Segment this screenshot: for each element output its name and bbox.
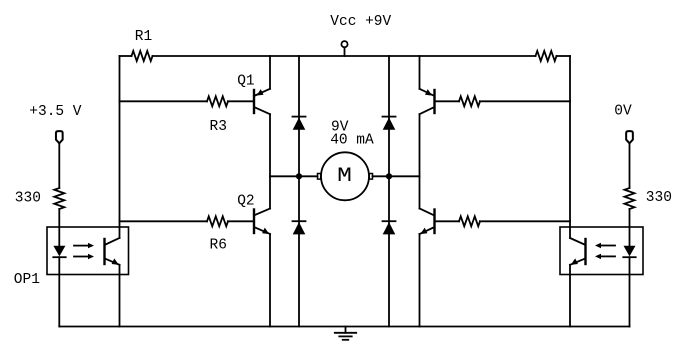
phototransistor OP1 xyxy=(105,238,120,265)
transistor right upper PNP xyxy=(420,89,435,114)
wire right NPN emitter to bottom rail xyxy=(419,234,421,327)
diode upper right xyxy=(383,117,396,130)
svg-text:330: 330 xyxy=(646,190,672,206)
wire right emitter to bottom rail xyxy=(569,265,571,327)
wire R6 row right xyxy=(228,220,253,222)
wire lower right diode column xyxy=(388,176,390,326)
wire LED OP1 cathode to bottom rail xyxy=(58,257,60,326)
svg-text:330: 330 xyxy=(15,191,41,207)
wire motor row left xyxy=(270,175,318,177)
wire upper right diode column xyxy=(388,56,390,176)
terminal 0V pin xyxy=(614,104,633,144)
resistor top right xyxy=(536,51,557,61)
svg-text:OP1: OP1 xyxy=(14,272,40,288)
svg-text:M: M xyxy=(337,165,352,188)
wire right collector column xyxy=(419,114,421,208)
label 9V 40mA xyxy=(330,119,374,148)
wire motor row right xyxy=(373,175,420,177)
wire right lower base row to rail xyxy=(480,220,570,222)
terminal Vcc xyxy=(341,41,347,56)
optocoupler OP1 box xyxy=(14,227,129,288)
ground xyxy=(335,327,356,340)
wire left input xyxy=(58,143,60,188)
wire top rail left segment xyxy=(120,55,132,57)
wire top rail middle segment xyxy=(153,55,536,57)
svg-text:40 mA: 40 mA xyxy=(330,132,374,148)
svg-text:Vcc +9V: Vcc +9V xyxy=(330,14,391,30)
resistor R6 xyxy=(207,216,228,253)
svg-text:0V: 0V xyxy=(614,104,632,120)
node motor left junction xyxy=(296,173,302,179)
resistor right lower base xyxy=(459,216,480,226)
wire Q2 emitter to bottom rail xyxy=(269,234,271,327)
wire R6 row left xyxy=(120,220,208,222)
wire right upper base row xyxy=(436,100,460,102)
motor left terminal xyxy=(318,174,321,180)
diode upper left xyxy=(293,117,306,130)
wire lower left diode column xyxy=(298,176,300,326)
wire right input xyxy=(629,143,631,188)
svg-text:R3: R3 xyxy=(210,119,227,135)
resistor right upper base xyxy=(459,96,480,106)
transistor Q1 xyxy=(237,74,270,115)
wire left LED anode xyxy=(58,209,60,246)
wire right rail xyxy=(569,56,571,238)
wire bottom rail xyxy=(59,326,629,328)
terminal +3.5V pin xyxy=(29,104,82,143)
diode lower left xyxy=(293,221,306,234)
resistor R1 xyxy=(132,29,153,61)
transistor Q2 xyxy=(237,194,270,234)
wire right lower base row xyxy=(436,220,460,222)
transistor right lower NPN xyxy=(420,209,435,235)
resistor 330 left xyxy=(15,188,65,209)
wire left rail xyxy=(119,56,121,238)
wire right LED anode xyxy=(629,209,631,246)
wire top rail right segment xyxy=(557,55,571,57)
motor M xyxy=(321,152,369,200)
svg-text:R1: R1 xyxy=(135,29,152,45)
motor right terminal xyxy=(369,174,372,180)
wire R3 row right xyxy=(228,100,253,102)
svg-text:Q1: Q1 xyxy=(237,74,254,90)
wire right upper base row to rail xyxy=(480,100,570,102)
wire right LED cathode to bottom rail xyxy=(629,257,631,326)
light arrows right xyxy=(595,243,615,259)
LED right xyxy=(623,246,635,257)
svg-text:R6: R6 xyxy=(210,238,227,254)
wire OP1 emitter to bottom rail xyxy=(119,265,121,327)
diode lower right xyxy=(383,221,396,234)
wire R3 row left xyxy=(120,100,208,102)
LED OP1 xyxy=(53,246,65,257)
wire upper left diode column xyxy=(298,56,300,176)
resistor 330 right xyxy=(625,188,672,209)
svg-text:+3.5 V: +3.5 V xyxy=(29,104,82,120)
phototransistor right xyxy=(570,238,586,265)
optocoupler right box xyxy=(560,227,643,275)
wire Q1/Q2 collector column xyxy=(269,114,271,208)
node motor right junction xyxy=(386,173,392,179)
resistor R3 xyxy=(207,96,228,135)
svg-text:Q2: Q2 xyxy=(237,194,254,210)
wire Q1 emitter to top rail xyxy=(269,56,271,89)
wire right PNP emitter to top rail xyxy=(419,56,421,89)
light arrows OP1 xyxy=(74,243,94,259)
